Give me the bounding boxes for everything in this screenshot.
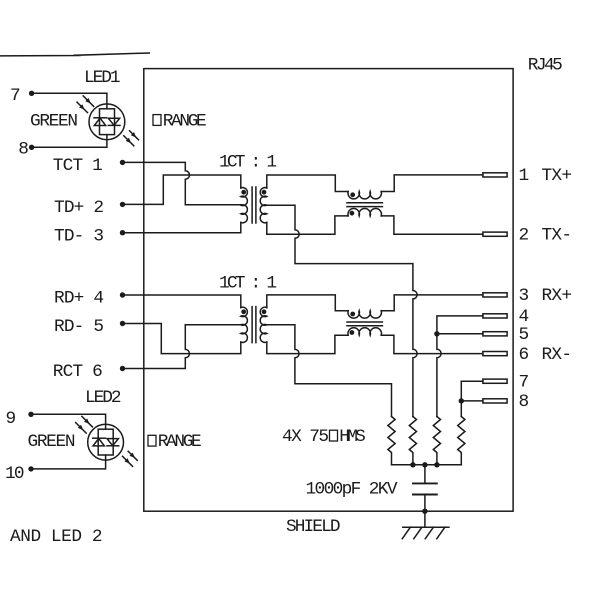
RJ45 connector outline box (144, 69, 513, 512)
wire RCT to T2 center tap (hops RD- wire) (123, 325, 241, 369)
RJ45 pin 4 stub (483, 314, 507, 318)
transformer T1 core (252, 187, 256, 223)
wire TCT to T1 center tap (hops TD+ wire) (123, 162, 241, 204)
transformer T2 primary phase dot (241, 309, 246, 314)
svg-text:GREEN: GREEN (28, 432, 76, 452)
node RD+ pin (120, 292, 125, 297)
RJ45 pin 1 stub (483, 173, 507, 177)
LED2 pin 10 wire (31, 455, 106, 469)
resistor R2 (409, 417, 416, 465)
node pin 10 (28, 466, 33, 471)
node pin7/pin8 junction (459, 398, 464, 403)
svg-text:5: 5 (519, 325, 530, 345)
svg-text:RANGE: RANGE (158, 432, 202, 452)
svg-text:HMS: HMS (339, 427, 366, 447)
svg-text:RJ45: RJ45 (528, 56, 563, 76)
label ORANGE (LED1) (153, 115, 161, 126)
svg-text:7: 7 (10, 86, 21, 106)
node bus junction cap (422, 462, 427, 467)
svg-text:TD- 3: TD- 3 (54, 226, 104, 246)
wire T1 secondary bottom to choke L1 (267, 216, 348, 234)
choke L1 top winding (348, 192, 382, 199)
node RCT pin (120, 366, 125, 371)
svg-text:GREEN: GREEN (30, 111, 78, 131)
svg-text:LED2: LED2 (85, 388, 122, 408)
transformer T2 secondary winding (260, 307, 267, 342)
RJ45 pin 2 stub (483, 232, 507, 236)
svg-text:9: 9 (6, 409, 17, 429)
svg-text:LED1: LED1 (84, 68, 121, 88)
svg-text:8: 8 (519, 392, 530, 412)
node shield junction (422, 509, 427, 514)
title block line (cut off at top left) (0, 53, 149, 56)
transformer T1 primary phase dot (241, 190, 246, 195)
LED1 light arrows lower-right (124, 131, 139, 146)
RJ45 pin 6 stub (483, 352, 507, 356)
choke L2 core (347, 322, 382, 326)
LED1 pin 7 wire (32, 93, 107, 109)
LED1 pin 8 wire (32, 135, 107, 148)
wire TD- to T1 primary bottom (123, 222, 241, 232)
wire choke L1 bottom to RJ45 pin 2 (381, 216, 483, 234)
choke L2 bottom winding (348, 328, 382, 335)
RJ45 pin 5 stub (483, 332, 507, 336)
choke L2 top phase dot (350, 312, 355, 317)
node pin 7 (29, 91, 34, 96)
node pin 8 (29, 145, 34, 150)
transformer T1 secondary winding (260, 188, 267, 223)
resistor R1 (388, 417, 395, 465)
node pin 9 (28, 412, 33, 417)
LED2 pin 9 wire (31, 414, 106, 429)
choke L2 bottom phase dot (350, 330, 355, 335)
label ORANGE (LED2) (148, 435, 156, 446)
wire junction to resistor R4 (460, 401, 462, 417)
svg-text:RANGE: RANGE (163, 111, 207, 131)
svg-text:3: 3 (519, 286, 530, 306)
wire resistor common bus (392, 464, 462, 466)
choke L1 core (347, 203, 382, 207)
transformer T2 core (252, 307, 256, 343)
svg-text:6: 6 (519, 345, 530, 365)
node RD- pin (120, 321, 125, 326)
wire capacitor C1 to shield (424, 495, 426, 528)
choke L2 top winding (348, 311, 382, 318)
wire T1 secondary center tap to resistor R2 (hops 3 wires) (267, 205, 417, 416)
svg-text:1CT : 1: 1CT : 1 (219, 273, 277, 293)
LED2 light arrows upper-left (76, 416, 93, 433)
svg-text:1: 1 (519, 166, 530, 186)
svg-text:TX-: TX- (542, 226, 573, 246)
svg-text:8: 8 (18, 140, 29, 160)
LED1 light arrows upper-left (77, 96, 94, 113)
node pin4/pin5 junction (434, 331, 439, 336)
wire TD+ to T1 primary top (123, 175, 241, 204)
svg-text:AND LED 2: AND LED 2 (10, 527, 103, 547)
wire choke L2 bottom to RJ45 pin 6 (381, 335, 483, 353)
wire choke L1 top to RJ45 pin 1 (381, 175, 483, 192)
svg-text:2: 2 (519, 226, 530, 246)
RJ45 pin 8 stub (483, 399, 507, 403)
choke L1 top phase dot (350, 192, 355, 197)
choke L1 bottom phase dot (350, 211, 355, 216)
svg-text:SHIELD: SHIELD (286, 517, 341, 537)
svg-text:7: 7 (519, 373, 530, 393)
wire T1 secondary top to choke L1 (267, 175, 348, 192)
transformer T2 secondary phase dot (262, 309, 267, 314)
wire RD+ to T2 primary top (123, 295, 241, 308)
svg-text:RX-: RX- (542, 345, 573, 365)
wire junction to resistor R3 (hops RX- wire) (437, 334, 441, 417)
svg-text:TCT 1: TCT 1 (53, 156, 103, 176)
resistor R4 (458, 417, 465, 465)
LED1 bidirectional LED symbol (89, 104, 125, 140)
wire RJ45 pin 7 to resistor R4 (461, 381, 483, 401)
svg-text:RD+ 4: RD+ 4 (54, 289, 104, 309)
RJ45 pin 3 stub (483, 293, 507, 297)
svg-text:10: 10 (5, 464, 25, 484)
node bus junction R3 (434, 462, 439, 467)
resistor R3 (433, 417, 440, 465)
wire RD- to T2 primary bottom (123, 324, 241, 354)
node TCT pin (120, 160, 125, 165)
LED2 light arrows lower-right (123, 451, 138, 466)
svg-text:TD+ 2: TD+ 2 (54, 198, 104, 218)
wire T2 secondary top to choke L2 (267, 295, 348, 311)
svg-text:RCT 6: RCT 6 (53, 362, 103, 382)
wire T2 secondary center tap to resistor R1 (hops RX- wire) (267, 325, 392, 417)
svg-text:RX+: RX+ (542, 286, 573, 306)
svg-text:4X 75: 4X 75 (282, 427, 329, 447)
svg-text:RD- 5: RD- 5 (54, 317, 104, 337)
capacitor C1 (413, 483, 437, 494)
svg-text:1000pF 2KV: 1000pF 2KV (306, 480, 398, 500)
node bus junction R2 (410, 462, 415, 467)
transformer T1 secondary phase dot (262, 190, 267, 195)
transformer T2 primary winding (241, 307, 248, 342)
wire T2 secondary bottom to choke L2 (267, 335, 348, 353)
wire RJ45 pin 8 (461, 400, 483, 402)
wire RJ45 pin 5 (437, 333, 483, 335)
transformer T1 primary winding (241, 188, 248, 223)
svg-text:1CT : 1: 1CT : 1 (219, 152, 277, 172)
ground (chassis) (402, 527, 449, 539)
choke L1 bottom winding (348, 208, 382, 215)
wire choke L2 top to RJ45 pin 3 (381, 295, 483, 311)
LED2 bidirectional LED symbol (88, 424, 124, 460)
node TD+ pin (120, 202, 125, 207)
wire bus to capacitor C1 (424, 465, 426, 484)
svg-text:TX+: TX+ (542, 166, 573, 186)
wire RJ45 pin 4 to resistor R3 (437, 316, 483, 334)
RJ45 pin 7 stub (483, 379, 507, 383)
node TD- pin (120, 230, 125, 235)
